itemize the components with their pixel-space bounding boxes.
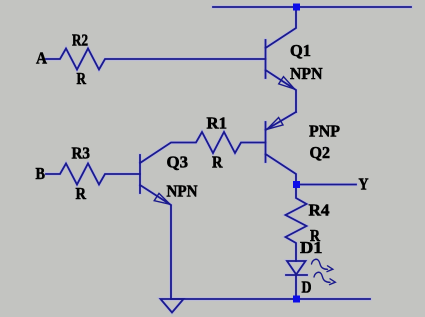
svg-text:Q2: Q2: [310, 143, 331, 162]
svg-text:NPN: NPN: [290, 64, 323, 83]
svg-text:D1: D1: [300, 238, 323, 257]
svg-text:R: R: [212, 153, 223, 172]
svg-text:R1: R1: [207, 114, 228, 133]
svg-text:R: R: [76, 184, 87, 203]
svg-text:B: B: [36, 164, 46, 183]
svg-text:R3: R3: [72, 144, 91, 163]
svg-text:Y: Y: [359, 175, 369, 194]
svg-text:NPN: NPN: [167, 182, 199, 201]
svg-text:R4: R4: [309, 201, 331, 220]
svg-text:R: R: [77, 69, 87, 88]
svg-text:A: A: [36, 49, 48, 68]
svg-text:D: D: [302, 278, 312, 297]
svg-text:R2: R2: [72, 31, 88, 50]
svg-text:PNP: PNP: [309, 122, 340, 141]
svg-text:Q3: Q3: [167, 153, 189, 172]
svg-text:Q1: Q1: [290, 41, 311, 60]
